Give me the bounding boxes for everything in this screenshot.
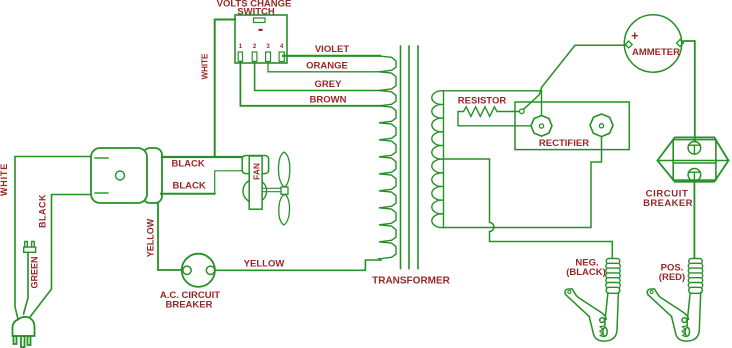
label NEG. (BLACK) (566, 258, 606, 279)
wire diagonal from rectifier tap up to ammeter (524, 45, 626, 109)
svg-text:VIOLET: VIOLET (315, 44, 350, 55)
wire yellow from AC circuit breaker to transformer (215, 260, 381, 270)
fan M1 (242, 152, 290, 225)
selector contact circle at resistor tap (520, 109, 525, 114)
wire brown from switch terminal 1 to transformer (240, 62, 380, 106)
svg-text:3: 3 (266, 44, 270, 50)
svg-text:1: 1 (239, 44, 243, 50)
svg-text:GREY: GREY (315, 79, 343, 90)
volts change switch terminal pin numbers 1 2 3 4 (239, 44, 284, 50)
AC plug P1 (13, 317, 35, 347)
wire violet from switch terminal 4 to transformer (283, 55, 380, 57)
label CIRCUIT BREAKER (643, 189, 693, 210)
svg-text:(RED): (RED) (659, 272, 685, 283)
svg-text:(BLACK): (BLACK) (566, 267, 606, 278)
label VOLTS CHANGE SWITCH (217, 0, 292, 18)
NEG clamp boot (606, 259, 620, 294)
POS clamp boot (688, 259, 702, 294)
resistor R1 (458, 107, 531, 126)
svg-text:FAN: FAN (251, 163, 261, 180)
wire secondary bottom to rectifier right stud (444, 137, 602, 227)
DC circuit breaker CB2 (657, 137, 728, 181)
svg-text:BREAKER: BREAKER (166, 300, 213, 311)
AC circuit breaker CB1 (182, 254, 215, 287)
transformer T1 secondary winding (432, 91, 444, 228)
green wire fork terminal (24, 242, 36, 253)
svg-text:TRANSFORMER: TRANSFORMER (372, 276, 451, 287)
svg-text:BLACK: BLACK (173, 181, 206, 192)
wire white from on/off switch up to volts change switch (215, 20, 235, 158)
ammeter M2 (624, 15, 683, 72)
svg-text:2: 2 (253, 44, 257, 50)
svg-text:WHITE: WHITE (201, 53, 210, 79)
wire black from on/off switch to fan (bottom) (161, 193, 215, 195)
NEG clamp body (565, 289, 619, 341)
volts change switch S1 body (235, 15, 287, 63)
wire grey from switch terminal 2 to transformer (255, 62, 380, 91)
POS clamp body (647, 289, 701, 341)
svg-text:YELLOW: YELLOW (244, 259, 285, 270)
svg-text:BLACK: BLACK (38, 194, 48, 228)
wire black from plug to on/off switch (30, 195, 91, 318)
on/off switch S2 (91, 148, 162, 203)
wire secondary center tap down to NEG clamp (444, 159, 613, 258)
svg-text:BREAKER: BREAKER (643, 198, 693, 209)
wire black from on/off switch to fan (top) (162, 156, 243, 158)
svg-text:SWITCH: SWITCH (237, 7, 275, 18)
svg-text:GREEN: GREEN (30, 256, 40, 288)
svg-text:AMMETER: AMMETER (632, 47, 680, 58)
svg-text:RECTIFIER: RECTIFIER (539, 138, 589, 149)
svg-text:ORANGE: ORANGE (306, 61, 348, 72)
svg-text:+: + (631, 29, 638, 43)
svg-text:WHITE: WHITE (0, 163, 9, 196)
transformer T1 primary winding (379, 56, 396, 260)
label POS. (RED) (659, 263, 685, 284)
wire from ammeter to DC circuit breaker (684, 41, 695, 142)
svg-text:YELLOW: YELLOW (146, 218, 156, 257)
wire from DC circuit breaker down to POS clamp (693, 181, 695, 258)
transformer T1 core (401, 46, 419, 269)
wire white from plug to on/off switch (15, 157, 91, 320)
label A.C. CIRCUIT BREAKER (160, 290, 220, 311)
svg-text:4: 4 (280, 44, 284, 50)
svg-text:BLACK: BLACK (172, 159, 205, 170)
rectifier D1 assembly (515, 102, 629, 150)
svg-text:RESISTOR: RESISTOR (458, 96, 507, 107)
wire orange from switch terminal 3 to transformer (268, 62, 380, 72)
svg-text:BROWN: BROWN (310, 95, 347, 106)
green ground wire with terminal (24, 252, 29, 314)
wire secondary top to rectifier left stud (444, 91, 542, 116)
wire yellow from on/off switch down to AC circuit breaker (158, 203, 182, 270)
